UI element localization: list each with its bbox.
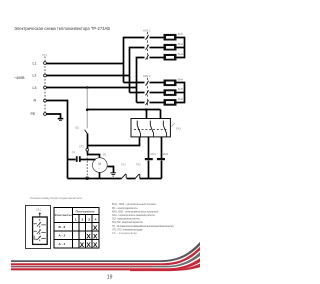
wire SQ out down bbox=[87, 134, 89, 155]
wire contact2 to BH2 bbox=[150, 47, 164, 49]
selector contact row 2 bbox=[34, 230, 46, 234]
svg-text:SA1: SA1 bbox=[176, 127, 182, 131]
KM2.2 linkage dashed bbox=[146, 78, 148, 106]
terminal N bbox=[44, 99, 47, 102]
wire SA1 out to KM1 coil bbox=[148, 137, 150, 159]
svg-text:КМ2: КМ2 bbox=[163, 152, 169, 156]
svg-text:ХТ1, ХТ2 - клеммная колодка;: ХТ1, ХТ2 - клеммная колодка; bbox=[112, 227, 143, 231]
svg-text:Схема коммутации переключателя: Схема коммутации переключателя bbox=[30, 196, 83, 200]
coil KM2 bbox=[157, 158, 165, 160]
svg-text:ВН3: ВН3 bbox=[178, 52, 184, 56]
wire contact3 to BH3 bbox=[150, 57, 164, 59]
wire KM1 coil down bbox=[148, 161, 150, 179]
motor M1 bbox=[92, 158, 107, 173]
wire riser L3 bbox=[137, 58, 145, 103]
svg-text:Положение: Положение bbox=[76, 209, 96, 213]
terminal strip XT1 dashed line bbox=[44, 57, 46, 118]
wire SQ to SA1 bottom feed bbox=[88, 138, 140, 146]
heater BH3 bbox=[164, 54, 177, 61]
footer stripe red 1 bbox=[11, 247, 200, 266]
wire KM2 coil down bbox=[161, 161, 163, 179]
svg-text:ТР - тепловая защита (аварийно: ТР - тепловая защита (аварийного выключе… bbox=[112, 224, 174, 228]
SA1 contact 2 bbox=[150, 121, 153, 137]
capacitor C1 bbox=[77, 156, 80, 162]
svg-text:М1: М1 bbox=[103, 152, 107, 156]
footer stripe grey 2 bbox=[11, 252, 200, 267]
terminal strip XT2 dashed bbox=[86, 148, 88, 179]
commutation table grid bbox=[54, 208, 99, 249]
svg-text:~400В: ~400В bbox=[14, 76, 25, 80]
svg-text:КМ1: КМ1 bbox=[151, 152, 157, 156]
selector contact row 1 bbox=[34, 222, 46, 226]
svg-text:X: X bbox=[86, 242, 91, 249]
footer stripe 3 warm tint left part bbox=[11, 266, 152, 268]
wire L3 bbox=[47, 87, 137, 89]
KM1.2 linkage dashed bbox=[146, 32, 148, 61]
wire contact5 to BH5 bbox=[150, 92, 164, 94]
svg-text:ВН2: ВН2 bbox=[178, 42, 184, 46]
svg-text:А - 2: А - 2 bbox=[59, 234, 66, 238]
KM2.2 contact 3 bbox=[146, 100, 149, 105]
svg-text:ВН5: ВН5 bbox=[178, 87, 184, 91]
svg-text:ТК1: ТК1 bbox=[121, 163, 126, 167]
wire riser L1 bbox=[124, 38, 145, 83]
wire riser L2 bbox=[130, 48, 145, 93]
XT2 terminal b bbox=[86, 177, 89, 180]
svg-text:PE: PE bbox=[31, 112, 36, 116]
svg-text:А - 1: А - 1 bbox=[59, 242, 66, 246]
terminal PE bbox=[44, 113, 47, 116]
svg-text:L3: L3 bbox=[33, 86, 37, 90]
bottom rail N bbox=[68, 178, 122, 180]
group1 bus tap BH2 bbox=[177, 47, 185, 49]
thermal contact TK1 bbox=[122, 174, 127, 179]
wire feed to SA1 top bbox=[88, 109, 161, 111]
heater BH4 bbox=[164, 80, 177, 87]
svg-text:ВН1: ВН1 bbox=[178, 32, 184, 36]
svg-text:SQ: SQ bbox=[75, 126, 79, 130]
SA1 contact 3 bbox=[163, 121, 166, 137]
group2 bus tap BH5 bbox=[177, 92, 185, 94]
wire N bbox=[47, 101, 68, 179]
footer stripe red 2 bbox=[11, 258, 200, 270]
XT2 terminal a bbox=[86, 149, 89, 152]
SA1 inner linkage dashed bbox=[134, 128, 168, 130]
wire L2 bbox=[47, 75, 130, 77]
svg-text:19: 19 bbox=[107, 275, 113, 281]
terminal L2 bbox=[44, 74, 47, 77]
thermal contact TK2 bbox=[135, 174, 140, 179]
table X marks bbox=[80, 225, 98, 249]
wire drop to SA1 top b bbox=[160, 110, 162, 119]
svg-text:ХТ1: ХТ1 bbox=[42, 53, 47, 57]
SA1 arrow mark bbox=[172, 124, 176, 127]
wire contact1 to BH1 bbox=[150, 37, 164, 39]
wire L1 to BH4 row bbox=[124, 82, 145, 84]
KM2.2 contact 1 bbox=[146, 81, 149, 86]
table position numbers bbox=[75, 217, 97, 221]
svg-text:ВН1 - ВН6 - нагревательный эле: ВН1 - ВН6 - нагревательный элемент; bbox=[112, 202, 157, 206]
legend text bbox=[112, 202, 174, 235]
svg-text:ТК1, ТК2 - защитный термостат;: ТК1, ТК2 - защитный термостат; bbox=[112, 220, 144, 224]
svg-text:~: ~ bbox=[98, 167, 100, 171]
wire N to capacitor bbox=[68, 159, 76, 161]
terminal L1 bbox=[44, 62, 47, 65]
svg-text:В - 3: В - 3 bbox=[59, 225, 66, 229]
wire L3 to BH6 row bbox=[137, 102, 145, 104]
node L3 branch bbox=[86, 86, 89, 89]
PE ground bbox=[58, 119, 64, 121]
svg-text:ТК2: ТК2 bbox=[136, 163, 141, 167]
svg-text:М: М bbox=[98, 162, 101, 166]
terminal L3 bbox=[44, 86, 47, 89]
heater BH1 bbox=[164, 34, 177, 41]
svg-text:Электрическая схема теплоконве: Электрическая схема теплоконвектора ТР-2… bbox=[14, 26, 110, 31]
wire SA1 out to KM2 coil bbox=[161, 137, 163, 159]
selector SA1 box bbox=[131, 119, 170, 137]
wire drop to SA1 top a bbox=[146, 110, 148, 119]
heater BH2 bbox=[164, 44, 177, 51]
motor ground bbox=[110, 173, 116, 176]
footer stripe grey 1 bbox=[11, 242, 200, 262]
svg-text:Контакты: Контакты bbox=[55, 213, 73, 217]
footer stripe red 3 bbox=[130, 264, 200, 272]
heater BH6 bbox=[164, 99, 177, 106]
svg-text:ХТ2: ХТ2 bbox=[79, 145, 84, 149]
node SA1 top feed bbox=[145, 108, 148, 111]
svg-text:М1 - электродвигатель;: М1 - электродвигатель; bbox=[112, 206, 138, 210]
heater BH5 bbox=[164, 89, 177, 96]
svg-text:КМ1.2: КМ1.2 bbox=[143, 29, 151, 33]
selector diagram inner box bbox=[33, 217, 48, 244]
selector contact row 3 bbox=[34, 236, 46, 240]
svg-text:SA1: SA1 bbox=[36, 207, 42, 211]
svg-text:КМ2.2: КМ2.2 bbox=[143, 74, 151, 78]
selector diagram outer box bbox=[26, 206, 51, 249]
svg-text:X: X bbox=[86, 233, 91, 240]
svg-text:С1 - конденсатор.: С1 - конденсатор. bbox=[112, 231, 138, 235]
wire L1 bbox=[47, 63, 124, 65]
wire L2 to BH5 row bbox=[130, 92, 145, 94]
switch SQ blade bbox=[85, 130, 88, 134]
wire capacitor to motor bbox=[81, 159, 96, 161]
KM1.2 contact 1 bbox=[146, 35, 149, 40]
SA1 contact 1 bbox=[137, 121, 140, 137]
wire to motor top bbox=[88, 155, 100, 158]
selector diagram arrow bbox=[39, 213, 41, 217]
wire contact4 to BH4 bbox=[150, 82, 164, 84]
svg-text:SA1 - переключатель режимов ра: SA1 - переключатель режимов работы; bbox=[112, 213, 155, 217]
wire PE bbox=[47, 114, 61, 118]
group2 star bus bbox=[177, 83, 185, 103]
svg-text:X: X bbox=[93, 233, 98, 240]
wire contact6 to BH6 bbox=[150, 102, 164, 104]
svg-text:КМ1, КМ2 - электромагнитные пу: КМ1, КМ2 - электромагнитные пускатели; bbox=[112, 209, 159, 213]
svg-text:ВН4: ВН4 bbox=[178, 77, 184, 81]
svg-text:С1: С1 bbox=[72, 150, 76, 154]
svg-text:X: X bbox=[80, 242, 85, 249]
KM1.2 contact 2 bbox=[146, 45, 149, 50]
node feed junction bbox=[86, 108, 89, 111]
wire motor bottom bbox=[99, 173, 101, 179]
selector inner linkage dashed bbox=[39, 219, 41, 243]
svg-text:X: X bbox=[93, 225, 98, 232]
wire motor right bbox=[108, 167, 114, 173]
rail TK2 to coils bbox=[140, 178, 162, 180]
rail TK1 to TK2 bbox=[127, 178, 136, 180]
svg-text:L2: L2 bbox=[33, 74, 37, 78]
svg-text:SQ - микровыключатель;: SQ - микровыключатель; bbox=[112, 217, 140, 221]
svg-text:ВН6: ВН6 bbox=[178, 97, 184, 101]
group1 star bus bbox=[177, 38, 185, 58]
KM2.2 contact 2 bbox=[146, 90, 149, 95]
svg-text:L1: L1 bbox=[33, 61, 37, 65]
coil KM1 bbox=[145, 158, 153, 160]
KM1.2 contact 3 bbox=[146, 55, 149, 60]
svg-text:X: X bbox=[93, 242, 98, 249]
wire L3 branch down to SQ bbox=[86, 88, 88, 129]
